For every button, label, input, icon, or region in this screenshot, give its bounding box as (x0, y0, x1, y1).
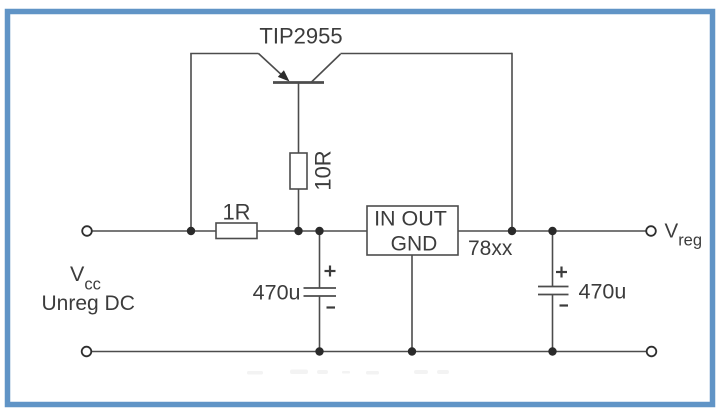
svg-text:IN OUT: IN OUT (374, 207, 447, 231)
wire left vertical (input to emitter) (190, 54, 192, 232)
wire input rail (top left horizontal) (92, 230, 367, 232)
terminal Vreg output (open circle top right) (646, 226, 656, 236)
faint watermark remnant (247, 370, 449, 375)
terminal ground left (open circle bottom left) (82, 347, 92, 357)
wire top right horizontal (collector to output) (341, 53, 513, 55)
junction dot input rail / left vertical (187, 227, 195, 235)
junction dot input rail / C1 (315, 227, 323, 235)
wire C1 top lead (319, 231, 321, 288)
polarity minus of C2 (560, 304, 569, 306)
wire output rail (top right horizontal) (458, 230, 646, 232)
junction dot ground rail / U1 GND (408, 347, 416, 355)
junction dot output rail / C2 (548, 227, 556, 235)
wire GND pin of U1 down to ground rail (411, 255, 413, 352)
wire R2 bottom to input rail (298, 189, 300, 231)
svg-text:470u: 470u (579, 280, 627, 304)
junction dot ground rail / C2 (548, 347, 556, 355)
polarity plus of C1 (325, 266, 336, 277)
svg-text:TIP2955: TIP2955 (259, 24, 342, 49)
wire bottom ground rail (92, 351, 647, 353)
junction dot ground rail / C1 (315, 347, 323, 355)
svg-text:78xx: 78xx (468, 237, 513, 260)
junction dot output rail / collector (508, 227, 516, 235)
svg-text:Unreg DC: Unreg DC (42, 292, 135, 315)
svg-text:470u: 470u (253, 281, 301, 305)
wire C2 top lead (552, 231, 554, 287)
svg-text:GND: GND (391, 233, 438, 256)
capacitor C2 470u (538, 287, 569, 295)
svg-text:1R: 1R (222, 200, 250, 225)
capacitor C1 470u (304, 288, 337, 296)
polarity plus of C2 (556, 267, 567, 278)
terminal Vcc input (open circle top left) (82, 226, 92, 236)
svg-text:10R: 10R (311, 150, 336, 190)
wire top left horizontal (to emitter) (190, 53, 258, 55)
polarity minus of C1 (327, 306, 336, 308)
wire right vertical (collector down to output rail) (511, 53, 513, 231)
resistor R1 1R (216, 223, 257, 239)
terminal ground right (open circle bottom right) (647, 347, 657, 357)
regulator U1 78xx box (367, 206, 458, 255)
junction dot input rail / R2 (294, 227, 302, 235)
transistor Q1 TIP2955 (259, 54, 341, 83)
wire base of Q1 down to R2 (298, 83, 300, 154)
wire C2 bottom lead (552, 295, 554, 352)
wire C1 bottom lead (319, 296, 321, 352)
resistor R2 10R (290, 153, 307, 189)
